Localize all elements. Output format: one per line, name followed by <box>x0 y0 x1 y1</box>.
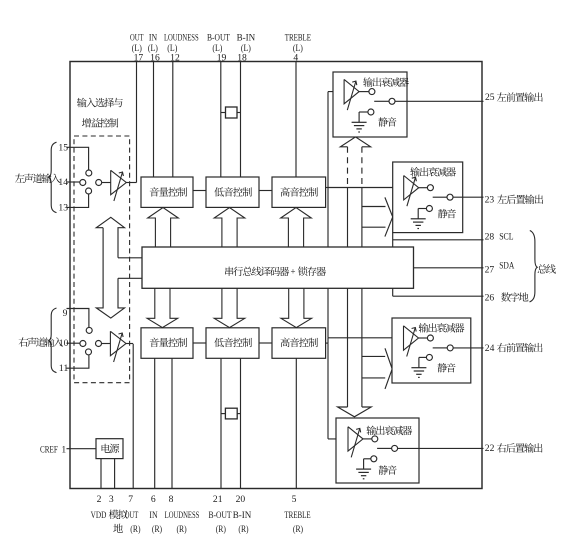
svg-text:25: 25 <box>485 92 495 103</box>
pin 15 contact <box>86 170 92 176</box>
bottom pin names row <box>91 510 311 521</box>
top pin names row <box>130 32 311 43</box>
label 26 digital-ground <box>485 292 529 303</box>
pin 18 B-IN(L) line <box>240 62 242 178</box>
label CREF 1 <box>40 444 66 455</box>
control arrow to volume R <box>147 288 178 327</box>
label left-channel-input <box>15 174 60 184</box>
svg-text:24: 24 <box>485 343 495 354</box>
svg-text:10: 10 <box>59 338 69 349</box>
pin 12 LOUDNESS(L) line <box>172 62 174 178</box>
pin 17 OUT(L) line <box>136 62 138 183</box>
svg-text:(R): (R) <box>130 524 140 535</box>
svg-text:5: 5 <box>292 494 297 505</box>
svg-text:SDA: SDA <box>499 260 514 271</box>
pin 21 B-OUT(R) line <box>220 358 222 488</box>
pin 7 OUT(R) line <box>132 344 134 489</box>
pin 28 SCL wire <box>393 233 484 247</box>
pin 10 contact <box>80 341 86 347</box>
svg-text:14: 14 <box>58 177 68 188</box>
svg-text:8: 8 <box>169 494 174 505</box>
svg-text:TREBLE: TREBLE <box>284 510 310 521</box>
svg-text:IN: IN <box>149 32 157 43</box>
svg-text:12: 12 <box>170 52 180 63</box>
svg-text:B-OUT: B-OUT <box>209 510 232 521</box>
gain amplifier L <box>111 170 127 201</box>
control arrow to treble R <box>281 288 312 327</box>
label 27 SDA <box>485 260 515 275</box>
control bus double arrow to input selector <box>96 217 124 318</box>
pin 4 TREBLE(L) line <box>295 62 297 178</box>
svg-text:27: 27 <box>485 265 495 276</box>
volume control R box <box>141 328 193 359</box>
pin 27 SDA wire <box>414 267 484 269</box>
output attenuator 1 box left front <box>333 72 484 137</box>
top pin (L) row <box>132 43 303 54</box>
control arrow to volume L <box>148 208 179 247</box>
svg-text:(R): (R) <box>152 524 162 535</box>
pin 14 wire <box>67 181 80 183</box>
treble control R box <box>272 328 326 359</box>
svg-text:13: 13 <box>58 202 68 213</box>
svg-text:26: 26 <box>485 293 495 304</box>
pin 13 wire <box>67 194 89 207</box>
output attenuator 4 box right rear <box>336 418 484 483</box>
pin 14 number <box>58 177 68 188</box>
pin 11 wire <box>67 355 89 368</box>
pin 15 wire <box>67 147 89 170</box>
pin 23 label <box>485 194 544 205</box>
svg-text:16: 16 <box>150 52 160 63</box>
top pin numbers row <box>134 52 299 63</box>
svg-text:15: 15 <box>58 142 68 153</box>
selector L common contact <box>96 180 111 186</box>
svg-text:18: 18 <box>237 52 247 63</box>
pin 6 IN(R) line <box>154 358 156 488</box>
pin 5 TREBLE(R) line <box>295 358 297 488</box>
svg-text:CREF: CREF <box>40 444 58 455</box>
volume control L box <box>141 177 193 207</box>
power supply box <box>96 439 123 459</box>
svg-text:17: 17 <box>134 52 144 63</box>
amp R output wire to pin 7 <box>126 343 133 345</box>
wide arrow head down into attenuator 4 <box>338 407 372 417</box>
pin 13 number <box>58 202 68 213</box>
branch arrow into attenuator 2 <box>362 197 393 236</box>
label gain-control <box>82 118 118 127</box>
pin 1 CREF wire <box>67 448 97 450</box>
svg-text:TREBLE: TREBLE <box>285 32 311 43</box>
label bus <box>538 264 556 273</box>
svg-text:9: 9 <box>63 308 68 319</box>
svg-text:22: 22 <box>485 443 495 454</box>
pin 15 number <box>58 142 68 153</box>
wire bass-L to treble-L <box>259 190 272 192</box>
pin 9 wire <box>67 309 89 328</box>
label 28 SCL <box>485 231 514 242</box>
svg-text:2: 2 <box>97 494 102 505</box>
pin 24 label <box>485 343 543 354</box>
svg-text:(R): (R) <box>177 524 187 535</box>
pin 10 wire <box>67 342 80 344</box>
svg-text:(R): (R) <box>293 524 303 535</box>
wire bass-R to treble-R <box>259 342 272 344</box>
svg-text:B-OUT: B-OUT <box>207 32 230 43</box>
pin 22 label <box>485 443 543 454</box>
gain amplifier R <box>110 331 126 362</box>
pin 26 digital ground wire <box>393 288 484 296</box>
treble control L box <box>272 177 326 207</box>
label right-channel-input <box>19 337 63 347</box>
control arrow to bass R <box>214 288 245 327</box>
svg-text:20: 20 <box>236 494 246 505</box>
svg-text:3: 3 <box>109 494 114 505</box>
left channel input brace <box>49 142 57 212</box>
label input-select-and <box>77 98 123 108</box>
svg-text:(R): (R) <box>216 524 226 535</box>
svg-text:VDD: VDD <box>91 510 107 521</box>
treble R output wire to attenuator amps <box>326 288 404 439</box>
svg-text:OUT: OUT <box>125 510 139 521</box>
bottom pin channel row <box>113 524 303 535</box>
treble L output wire to attenuator amps <box>326 92 404 247</box>
control arrow to treble L <box>281 208 312 247</box>
svg-text:6: 6 <box>151 494 156 505</box>
wide arrow head up into attenuator 1 <box>340 137 370 147</box>
svg-text:(R): (R) <box>238 524 248 535</box>
pin 16 IN(L) line <box>153 62 155 178</box>
pin 13 contact <box>86 188 92 194</box>
amp L output wire to pin 17 <box>126 182 136 184</box>
svg-text:LOUDNESS: LOUDNESS <box>165 510 200 521</box>
power supply wires to pins 2 and 3 <box>101 459 115 489</box>
svg-text:1: 1 <box>61 444 66 455</box>
bass control R box <box>206 328 259 359</box>
svg-text:11: 11 <box>59 363 69 374</box>
svg-text:21: 21 <box>213 494 223 505</box>
pin 9 contact <box>86 327 92 333</box>
pin 20 B-IN(R) line <box>240 358 242 488</box>
wide signal flow arrow shaft <box>348 147 362 407</box>
pin 8 LOUDNESS(R) line <box>171 358 173 488</box>
svg-text:SCL: SCL <box>499 231 514 242</box>
svg-text:28: 28 <box>485 231 495 242</box>
wire volume-L to bass-L <box>193 190 206 192</box>
svg-text:IN: IN <box>149 510 157 521</box>
serial bus decoder and latch box <box>142 247 414 288</box>
svg-text:+: + <box>291 267 296 278</box>
pin 25 label <box>485 92 543 103</box>
pin 10 number <box>59 338 69 349</box>
svg-text:4: 4 <box>293 52 298 63</box>
bass filter capacitor block L between pins 19 and 18 <box>221 107 241 118</box>
svg-text:23: 23 <box>485 194 495 205</box>
input selector and gain control dashed box <box>74 136 130 383</box>
wire volume-R to bass-R <box>193 342 206 344</box>
pin 14 contact <box>80 180 86 186</box>
svg-text:B-IN: B-IN <box>233 510 252 521</box>
selector R common contact <box>96 341 111 347</box>
pin 9 number <box>63 308 68 319</box>
pin 11 number <box>59 363 69 374</box>
output attenuator 2 box left rear <box>393 162 484 233</box>
svg-text:B-IN: B-IN <box>237 32 256 43</box>
svg-text:7: 7 <box>128 494 133 505</box>
bus brace <box>530 231 538 303</box>
svg-text:LOUDNESS: LOUDNESS <box>164 32 199 43</box>
output attenuator 3 box right front <box>392 318 484 383</box>
decoder stub wires to input selector <box>118 258 142 279</box>
pin 11 contact <box>86 349 92 355</box>
IC chip outline border <box>70 62 482 489</box>
bass filter capacitor block R between pins 21 and 20 <box>221 408 241 419</box>
control arrow to bass L <box>214 208 245 247</box>
bass control L box <box>206 177 259 207</box>
right channel input brace <box>49 308 57 373</box>
pin 19 B-OUT(L) line <box>220 62 222 178</box>
branch arrow into attenuator 3 <box>362 348 392 389</box>
svg-text:19: 19 <box>217 52 227 63</box>
bottom pin numbers row <box>97 494 297 505</box>
svg-text:OUT: OUT <box>130 32 144 43</box>
